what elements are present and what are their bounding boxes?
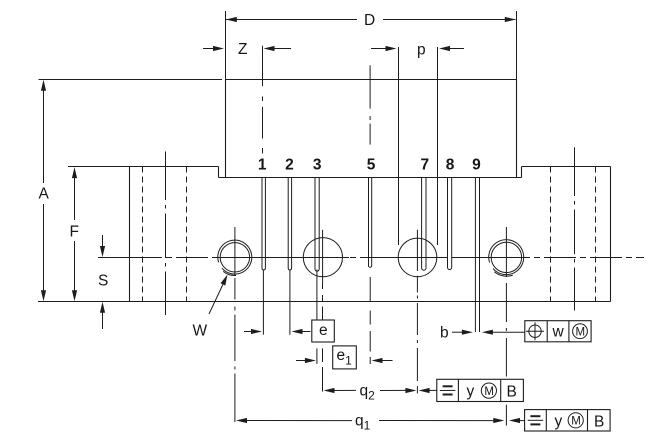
A top extension line: [39, 79, 223, 81]
svg-text:M: M: [571, 416, 581, 428]
pin 5 centerline lower: [369, 277, 371, 364]
right ear hidden hole line: [550, 167, 552, 302]
p section line right: [437, 47, 439, 245]
dimension p: [371, 42, 464, 59]
dimension q1: [236, 413, 525, 433]
pin 1 extension below body: [262, 271, 264, 335]
svg-text:p: p: [417, 42, 426, 59]
svg-text:b: b: [440, 325, 449, 342]
pin 8 lead: [448, 178, 452, 270]
pin 7 lead: [422, 178, 426, 271]
right ear hidden hole line 2: [595, 167, 597, 302]
pin 3 lead: [315, 178, 319, 272]
svg-text:y: y: [467, 383, 475, 400]
svg-text:B: B: [594, 414, 604, 431]
svg-text:S: S: [98, 273, 108, 290]
pin 2 extension below body: [289, 271, 291, 335]
svg-text:Z: Z: [238, 41, 247, 58]
svg-text:5: 5: [367, 157, 376, 174]
W label and leader arrow: [193, 275, 228, 340]
feature control frame: position w M: [525, 321, 591, 342]
svg-text:3: 3: [313, 157, 322, 174]
svg-text:8: 8: [446, 157, 455, 174]
svg-text:7: 7: [421, 157, 430, 174]
cap (upper block): [226, 80, 517, 178]
dimension A: [39, 80, 50, 301]
svg-text:e: e: [319, 322, 328, 339]
dimension D: [226, 12, 516, 29]
pin5 centerline in cap: [369, 65, 371, 108]
left ear centerline: [165, 152, 167, 201]
pin 2 lead: [288, 178, 291, 271]
dimension e1: [296, 346, 393, 369]
D extension lines: [225, 11, 227, 80]
dimension e: [244, 320, 334, 342]
svg-text:w: w: [552, 324, 565, 341]
feature control frame: symmetry y M B (q2): [437, 379, 524, 401]
dimension q2: [324, 383, 437, 403]
svg-text:9: 9: [472, 157, 481, 174]
pin 3 extension below body: [316, 270, 318, 364]
dimension b: [440, 325, 525, 342]
svg-text:D: D: [364, 12, 375, 29]
pin 9 lead (extended for b dim): [475, 178, 479, 333]
horizontal hole centerline: [98, 257, 644, 259]
dimension S: [98, 235, 108, 329]
body outline (lower block): [38, 167, 611, 302]
feature control frame: symmetry y M B (q1): [525, 410, 611, 431]
svg-text:W: W: [193, 323, 208, 340]
hole 3: [398, 230, 437, 394]
left ear hidden hole line: [142, 167, 144, 302]
dimension Z: [203, 41, 291, 58]
pin1 centerline in cap: [262, 46, 264, 86]
svg-text:B: B: [507, 384, 517, 401]
svg-text:M: M: [576, 327, 586, 339]
right ear centerline: [574, 147, 576, 196]
pin 5 lead: [369, 178, 372, 268]
pin 1 lead: [262, 178, 265, 270]
hole 2: [303, 230, 342, 392]
svg-text:F: F: [70, 224, 79, 241]
hole 1 (left round hole): [218, 227, 252, 422]
svg-text:1: 1: [258, 157, 267, 174]
hole 4 (right round hole): [489, 227, 524, 426]
svg-text:2: 2: [285, 157, 294, 174]
dimension F: [70, 167, 79, 301]
svg-text:A: A: [39, 186, 50, 203]
p section line left: [398, 47, 400, 245]
left ear hidden hole line 2: [186, 167, 188, 302]
svg-text:y: y: [555, 413, 563, 430]
svg-text:M: M: [484, 386, 494, 398]
